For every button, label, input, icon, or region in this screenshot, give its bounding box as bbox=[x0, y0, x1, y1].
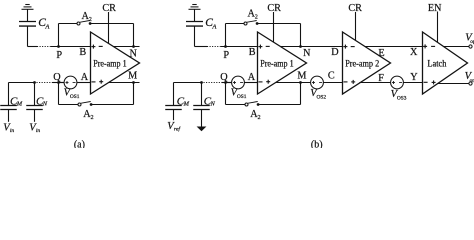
svg-text:P: P bbox=[223, 50, 229, 61]
svg-text:X: X bbox=[410, 47, 418, 58]
svg-text:N: N bbox=[42, 101, 48, 108]
svg-text:2: 2 bbox=[258, 114, 261, 121]
svg-text:P: P bbox=[56, 50, 62, 61]
svg-text:OS3: OS3 bbox=[397, 96, 407, 102]
svg-text:E: E bbox=[378, 48, 384, 59]
svg-text:2: 2 bbox=[89, 16, 92, 23]
svg-text:CR: CR bbox=[267, 3, 281, 14]
svg-text:M: M bbox=[16, 101, 23, 108]
svg-text:N: N bbox=[209, 101, 215, 108]
svg-text:op: op bbox=[470, 39, 474, 45]
svg-text:N: N bbox=[303, 48, 311, 59]
svg-text:A: A bbox=[81, 72, 89, 83]
svg-text:CR: CR bbox=[102, 3, 116, 14]
svg-text:A: A bbox=[44, 23, 50, 30]
svg-text:M: M bbox=[183, 101, 190, 108]
svg-text:Pre-amp 2: Pre-amp 2 bbox=[345, 59, 379, 69]
svg-text:(b): (b) bbox=[311, 139, 323, 148]
svg-text:Q: Q bbox=[53, 72, 61, 83]
svg-text:Y: Y bbox=[410, 72, 418, 83]
svg-text:Q: Q bbox=[220, 72, 228, 83]
svg-text:M: M bbox=[128, 71, 137, 82]
svg-text:A: A bbox=[248, 72, 256, 83]
svg-text:OS1: OS1 bbox=[237, 94, 247, 100]
svg-text:B: B bbox=[79, 47, 86, 58]
svg-text:Pre-amp 1: Pre-amp 1 bbox=[260, 59, 294, 69]
svg-text:C: C bbox=[328, 71, 335, 82]
svg-text:OS2: OS2 bbox=[317, 95, 327, 101]
svg-text:in: in bbox=[10, 128, 15, 134]
svg-text:D: D bbox=[331, 47, 338, 58]
svg-text:EN: EN bbox=[428, 3, 442, 14]
svg-text:on: on bbox=[470, 78, 474, 84]
svg-text:ref: ref bbox=[174, 125, 181, 132]
svg-text:F: F bbox=[378, 73, 384, 84]
svg-text:OS1: OS1 bbox=[70, 94, 80, 100]
svg-text:A: A bbox=[211, 23, 217, 30]
svg-text:2: 2 bbox=[255, 14, 258, 21]
svg-text:(a): (a) bbox=[74, 139, 85, 148]
svg-text:N: N bbox=[130, 48, 138, 59]
svg-text:B: B bbox=[249, 47, 256, 58]
svg-text:M: M bbox=[297, 71, 306, 82]
svg-text:Pre-amp 1: Pre-amp 1 bbox=[93, 59, 127, 69]
svg-text:2: 2 bbox=[91, 114, 94, 121]
svg-text:Latch: Latch bbox=[427, 59, 446, 69]
svg-text:in: in bbox=[36, 128, 41, 134]
